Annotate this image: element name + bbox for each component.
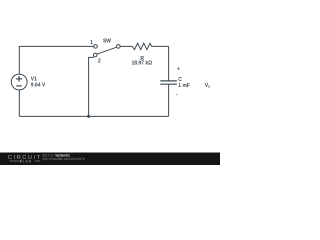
switch SW arm (closed to pin 2) (97, 47, 117, 54)
bottom rail wire (19, 115, 168, 117)
switch SW pin 1 terminal circle (94, 45, 98, 49)
switch SW common terminal circle (117, 45, 121, 49)
svg-text:Vc: Vc (205, 83, 211, 89)
footer logo dash left (10, 160, 20, 162)
svg-text:+: + (177, 66, 180, 72)
wire capacitor bottom down (168, 84, 170, 116)
footer logo lightning bolt (20, 159, 22, 163)
svg-text:1: 1 (90, 40, 93, 46)
svg-text:2: 2 (98, 58, 101, 64)
svg-text:LAB: LAB (23, 159, 32, 163)
V1 plus symbol (16, 76, 22, 82)
wire from switch common to resistor, resistor R zigzag, to right corner (120, 43, 168, 49)
svg-text:18.97 kΩ: 18.97 kΩ (131, 61, 152, 67)
junction node dot on bottom rail (87, 115, 90, 118)
switch SW pin 2 terminal circle (93, 53, 97, 57)
wire V1 bottom down (18, 90, 20, 117)
voltage source V1 circle (11, 74, 27, 90)
capacitor C top plate (160, 80, 177, 82)
wire right side down to capacitor (168, 46, 170, 81)
svg-text:V1: V1 (31, 76, 37, 82)
svg-text:9.64 V: 9.64 V (31, 83, 46, 89)
svg-text:SW: SW (103, 39, 111, 45)
wire top-left from V1 to switch pin 1 (19, 46, 93, 74)
V1 minus symbol (16, 85, 22, 87)
svg-text:http://circuitlab.com/c/nxm47e: http://circuitlab.com/c/nxm47e (43, 157, 85, 161)
svg-text:1 mF: 1 mF (178, 83, 190, 89)
footer black bar (0, 153, 220, 166)
wire from switch pin 2 down to bottom rail (89, 57, 94, 116)
capacitor C bottom plate (160, 83, 177, 85)
footer logo dash right (35, 160, 40, 162)
